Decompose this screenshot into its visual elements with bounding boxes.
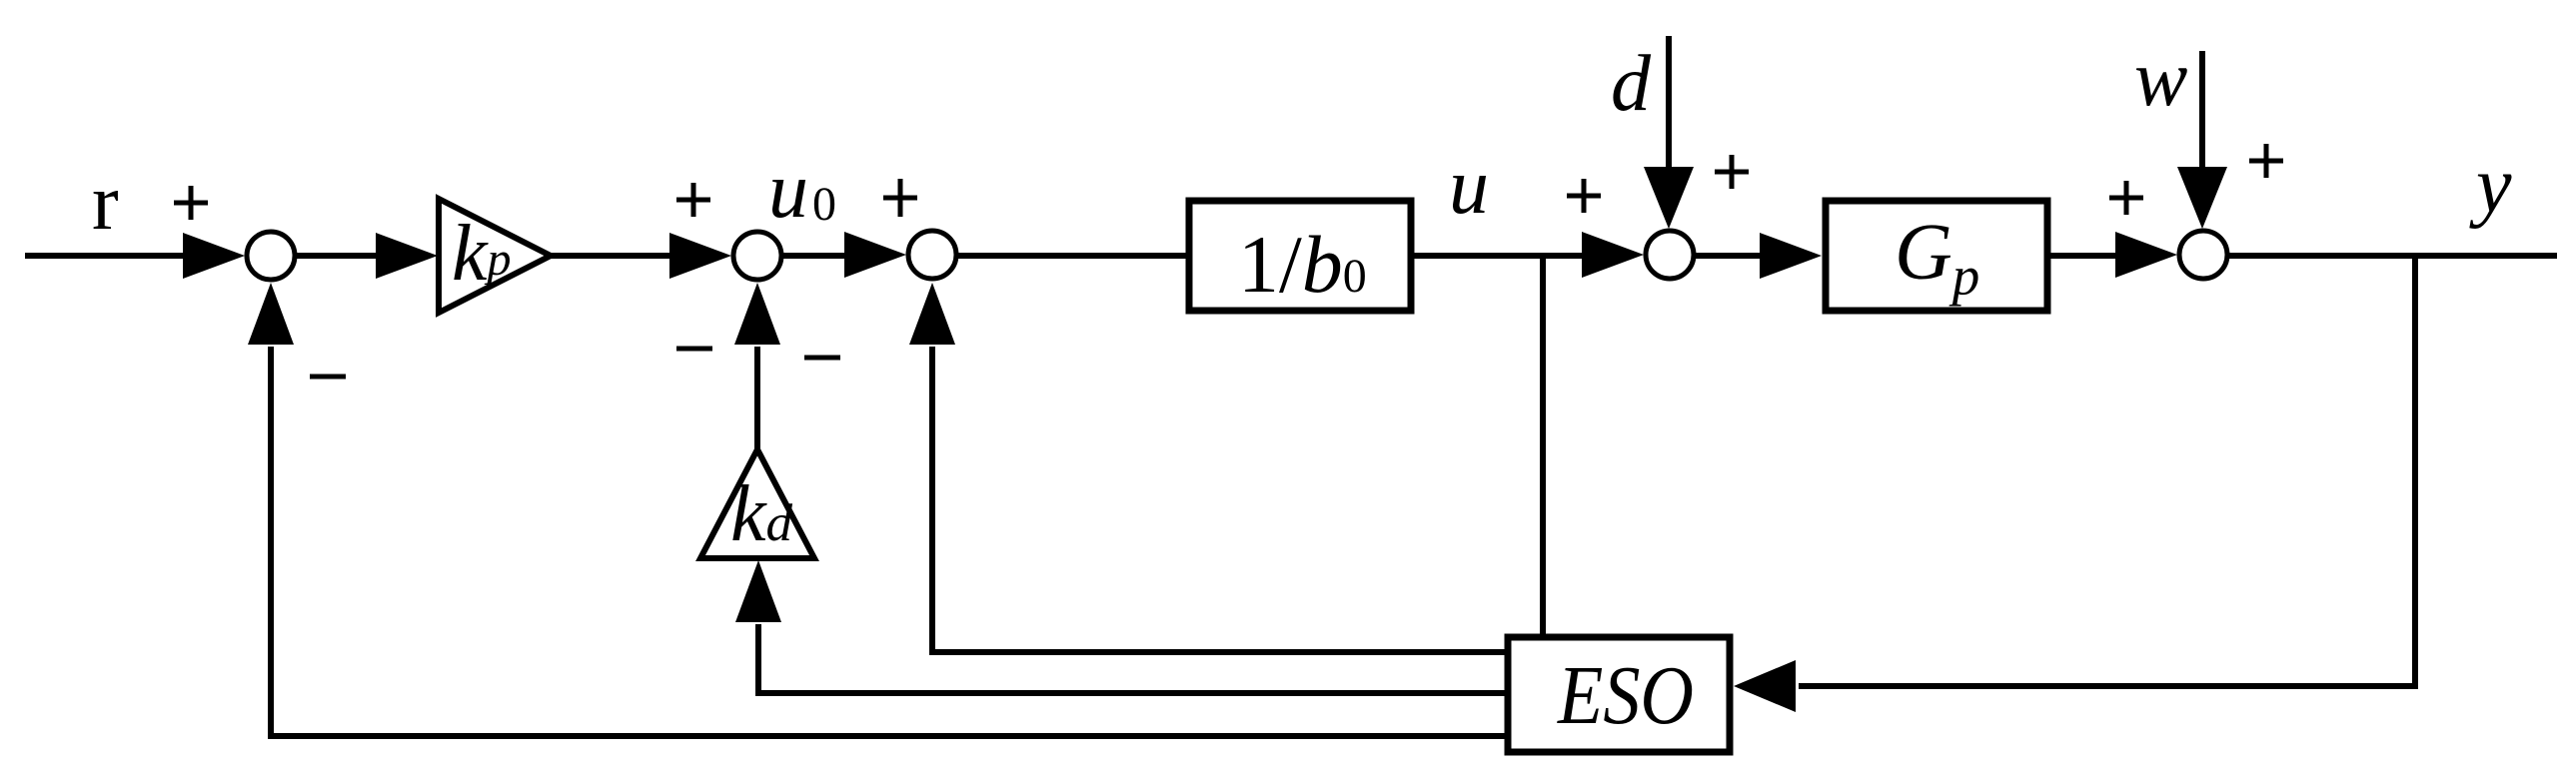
wire ESO out3 to sum1 xyxy=(271,347,1505,736)
svg-text:u: u xyxy=(1449,143,1489,231)
arrowhead into ESO right xyxy=(1734,660,1796,712)
summing junction S5 (w) xyxy=(2179,231,2227,279)
arrowhead into Gp xyxy=(1760,233,1822,279)
svg-text:d: d xyxy=(1611,40,1652,128)
arrowhead into sum1 xyxy=(183,233,245,279)
wire y feedback branch down and left to ESO xyxy=(1799,256,2415,686)
block 1/b0 box xyxy=(1189,201,1411,311)
wire d input vertical xyxy=(1666,36,1672,175)
svg-text:Gp: Gp xyxy=(1895,209,1979,307)
wire 1/b0 to sum4 xyxy=(1413,253,1589,259)
arrowhead up into kd base xyxy=(735,560,781,622)
plus sign at sum2 xyxy=(676,183,710,217)
wire sum1 to kp xyxy=(297,253,382,259)
wire Gp to sum5 xyxy=(2050,253,2120,259)
plus sign left of sum5 xyxy=(2109,181,2143,215)
wire sum2 to sum3 xyxy=(781,253,851,259)
arrowhead d into sum4 xyxy=(1644,167,1694,229)
arrowhead into sum2 xyxy=(669,233,731,279)
arrowhead into sum4 xyxy=(1582,232,1644,278)
wire sum4 to Gp xyxy=(1694,253,1765,259)
svg-text:1/b0: 1/b0 xyxy=(1238,219,1367,310)
gain triangle kp xyxy=(439,199,551,313)
plus sign at sum1 xyxy=(174,186,208,220)
plus sign left of sum4 xyxy=(1567,179,1601,213)
wire sum3 to 1/b0 xyxy=(956,253,1187,259)
arrowhead w into sum5 xyxy=(2177,167,2227,229)
wire r input xyxy=(25,253,190,259)
svg-text:u0: u0 xyxy=(768,147,836,235)
svg-text:kp: kp xyxy=(452,210,512,298)
block ESO box xyxy=(1508,637,1730,752)
wire kd apex up to sum2 xyxy=(754,347,760,451)
gain triangle kd xyxy=(700,449,814,558)
arrowhead into sum5 xyxy=(2115,232,2177,278)
svg-text:y: y xyxy=(2469,142,2512,230)
plus sign at sum3 xyxy=(883,179,917,217)
wire sum5 to y output xyxy=(2227,253,2557,259)
arrowhead up into sum1 xyxy=(248,283,294,345)
summing junction S3 xyxy=(908,231,956,279)
arrowhead up into sum2 xyxy=(734,283,780,345)
minus sign at sum2 xyxy=(676,347,712,352)
arrowhead up into sum3 xyxy=(909,283,955,345)
wire kp to sum2 xyxy=(551,253,675,259)
wire ESO out1 to sum3 xyxy=(932,347,1505,652)
wire w input vertical xyxy=(2199,51,2205,175)
summing junction S1 xyxy=(247,232,295,280)
block Gp box xyxy=(1826,201,2047,311)
summing junction S4 (d) xyxy=(1646,231,1694,279)
wire u branch down to ESO xyxy=(1540,256,1546,635)
svg-text:r: r xyxy=(92,159,119,247)
svg-text:ESO: ESO xyxy=(1557,649,1694,742)
svg-text:w: w xyxy=(2134,35,2187,123)
plus sign right of d arrow xyxy=(1715,155,1749,189)
svg-text:kd: kd xyxy=(730,470,793,558)
minus sign at sum1 xyxy=(310,375,346,380)
arrowhead into sum3 xyxy=(844,232,906,278)
minus sign at sum3 xyxy=(804,356,840,361)
summing junction S2 xyxy=(733,232,781,280)
plus sign right of w arrow xyxy=(2249,144,2283,178)
wire ESO out2 to kd xyxy=(758,624,1505,693)
arrowhead into kp xyxy=(376,233,438,279)
